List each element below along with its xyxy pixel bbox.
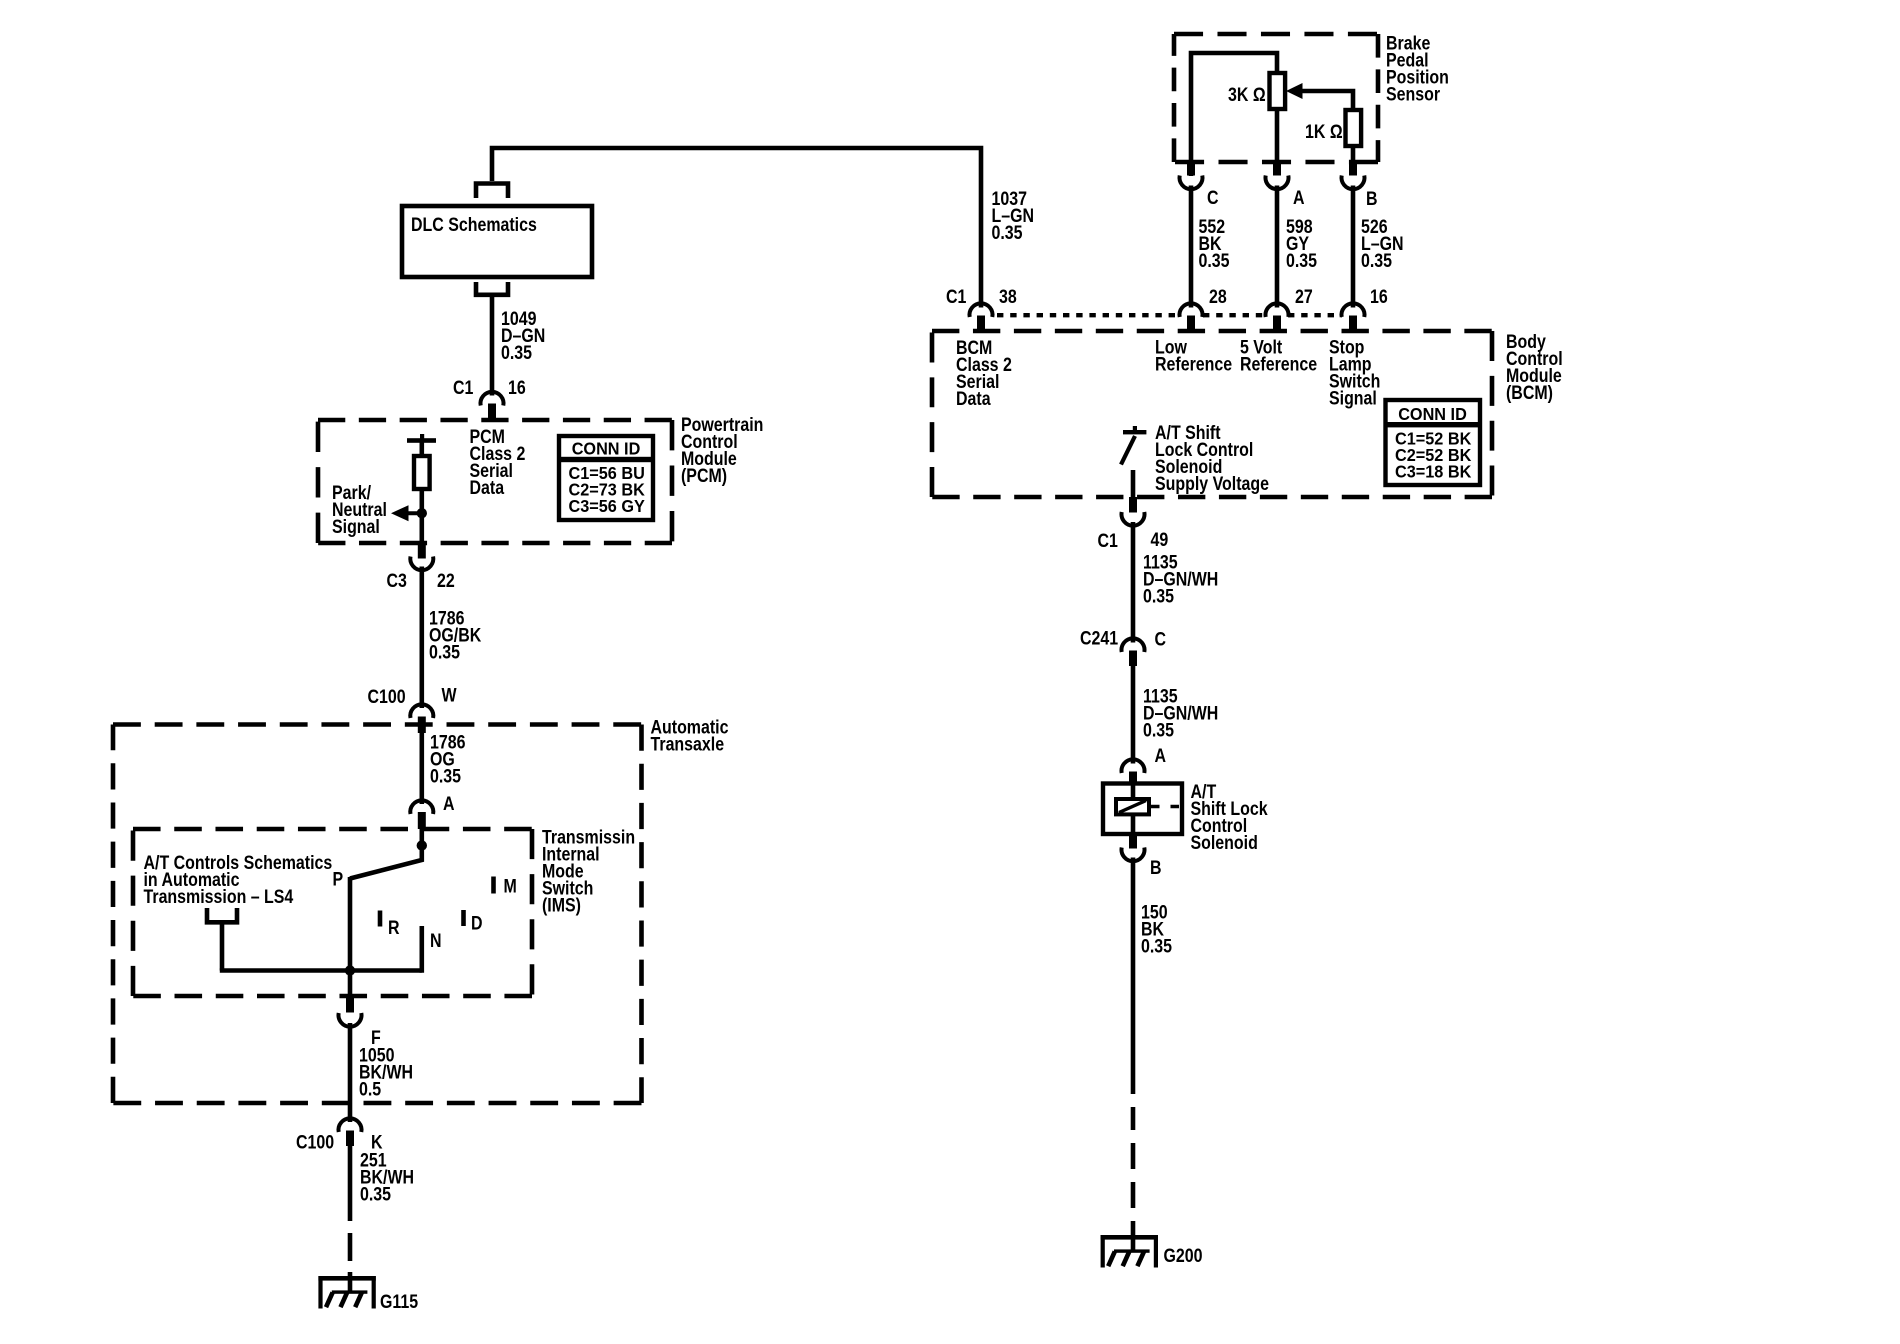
Transmissin IMS dashed box — [133, 829, 532, 996]
svg-text:P: P — [333, 868, 344, 890]
wire B to ground run — [1131, 858, 1136, 1095]
pin label W — [442, 684, 457, 706]
wire P contact down — [348, 877, 353, 973]
svg-text:0.35: 0.35 — [1199, 250, 1230, 272]
sensor pin label A — [1293, 187, 1305, 209]
svg-text:0.35: 0.35 — [992, 222, 1023, 244]
connector F below IMS — [339, 996, 362, 1027]
IMS wiper to P contact — [350, 846, 422, 879]
ground G200 — [1101, 1235, 1158, 1268]
dashed wire to G200 — [1131, 1107, 1136, 1250]
svg-text:Reference: Reference — [1240, 353, 1317, 375]
svg-text:M: M — [504, 875, 517, 897]
connector C1-49 below BCM — [1122, 497, 1145, 526]
connector label C1 (PCM) — [453, 377, 474, 399]
wire C241 to solenoid A — [1131, 666, 1136, 764]
wiper arrow — [1286, 83, 1353, 111]
svg-text:0.35: 0.35 — [1143, 719, 1174, 741]
sensor pin label C — [1207, 187, 1219, 209]
svg-text:A: A — [1155, 745, 1167, 767]
wire C100-K down — [348, 1146, 353, 1221]
dotted connector C1 row — [997, 313, 1342, 317]
connector B below solenoid — [1122, 834, 1145, 861]
sensor internal wire C-side — [1191, 53, 1277, 176]
pin label 28 — [1209, 286, 1227, 308]
svg-text:(PCM): (PCM) — [681, 465, 727, 487]
svg-text:22: 22 — [437, 570, 455, 592]
svg-text:N: N — [430, 930, 442, 952]
svg-text:0.35: 0.35 — [1141, 935, 1172, 957]
connector C3-22 below PCM — [410, 543, 433, 570]
svg-text:3K Ω: 3K Ω — [1228, 84, 1266, 106]
arrow Park/Neutral Signal — [391, 505, 422, 521]
switch A/T shift lock control in BCM — [1121, 426, 1146, 497]
pin label 16 — [508, 377, 526, 399]
svg-text:Solenoid: Solenoid — [1191, 832, 1258, 854]
svg-text:0.35: 0.35 — [360, 1183, 391, 1205]
svg-text:Signal: Signal — [332, 516, 380, 538]
connector A at IMS — [410, 800, 433, 829]
wire top data bus (DLC to BCM) — [492, 148, 981, 308]
svg-text:Data: Data — [470, 477, 505, 499]
label A/T Shift Lock Control Solenoid — [1191, 781, 1268, 854]
off-page bracket A/T Controls — [207, 908, 237, 922]
svg-text:W: W — [442, 684, 457, 706]
svg-text:(IMS): (IMS) — [542, 894, 581, 916]
connector pin 16 — [1342, 303, 1365, 331]
sensor pin label B — [1366, 188, 1378, 210]
label Brake Pedal Position Sensor — [1386, 32, 1449, 105]
svg-text:16: 16 — [1370, 286, 1388, 308]
resistor in PCM — [414, 456, 430, 489]
svg-text:DLC Schematics: DLC Schematics — [411, 214, 537, 236]
svg-text:0.35: 0.35 — [1143, 585, 1174, 607]
connector label C241 — [1080, 627, 1118, 649]
contact tick N — [419, 926, 424, 973]
svg-text:0.35: 0.35 — [429, 641, 460, 663]
wire label 1786 OG/BK 0.35 — [429, 607, 482, 663]
svg-text:Data: Data — [956, 388, 991, 410]
svg-text:Transmission – LS4: Transmission – LS4 — [144, 886, 294, 908]
svg-text:C: C — [1155, 628, 1167, 650]
svg-text:0.35: 0.35 — [501, 342, 532, 364]
wire resistor to node — [419, 487, 424, 542]
svg-text:C: C — [1207, 187, 1219, 209]
wire label 150 BK 0.35 — [1141, 901, 1172, 957]
junction dot F node — [345, 965, 355, 975]
wire C100-W to IMS pin A — [419, 731, 424, 804]
connector C1-16 at PCM — [481, 392, 504, 420]
svg-text:C100: C100 — [296, 1131, 334, 1153]
wire T-bar to resistor — [419, 441, 424, 458]
connector A at solenoid — [1122, 759, 1145, 784]
label G115 — [380, 1291, 418, 1313]
Brake Pedal Position Sensor dashed box — [1174, 34, 1378, 162]
PCM module dashed box — [318, 420, 672, 543]
wire 1K to pin B — [1351, 145, 1356, 162]
contact label N — [430, 930, 442, 952]
wire label 1135 D-GN/WH 0.35 lower — [1143, 685, 1218, 741]
contact label R — [388, 917, 400, 939]
svg-text:1K Ω: 1K Ω — [1305, 121, 1343, 143]
label Park/Neutral Signal — [332, 482, 387, 538]
solenoid element — [1116, 799, 1149, 814]
connector label C3 — [387, 570, 408, 592]
svg-text:C1: C1 — [1098, 530, 1119, 552]
svg-text:Sensor: Sensor — [1386, 83, 1440, 105]
label BCM Class 2 Serial Data — [956, 337, 1012, 410]
connector label C100 (K) — [296, 1131, 334, 1153]
wire A into IMS — [419, 828, 424, 848]
label Transmissin Internal Mode Switch (IMS) — [542, 826, 635, 916]
svg-text:0.35: 0.35 — [1286, 250, 1317, 272]
svg-text:G200: G200 — [1164, 1245, 1203, 1267]
pin label 49 — [1151, 529, 1169, 551]
off-page connector bracket below DLC — [476, 282, 508, 295]
BCM module dashed box — [932, 331, 1492, 497]
label PCM Class 2 Serial Data — [470, 426, 526, 499]
label Low Reference — [1155, 336, 1232, 375]
wire F node down — [348, 971, 353, 997]
svg-text:CONN ID: CONN ID — [572, 439, 641, 459]
label 3K ohm — [1228, 84, 1266, 106]
ground G115 — [318, 1276, 375, 1309]
wire label 1135 D-GN/WH 0.35 upper — [1143, 551, 1218, 607]
svg-text:38: 38 — [999, 286, 1017, 308]
svg-text:16: 16 — [508, 377, 526, 399]
label A/T Controls Schematics in Automatic Transmission - LS4 — [144, 852, 333, 908]
svg-text:0.5: 0.5 — [359, 1078, 381, 1100]
svg-text:C1: C1 — [453, 377, 474, 399]
svg-text:C3=18 BK: C3=18 BK — [1395, 462, 1472, 482]
label Automatic Transaxle — [651, 716, 729, 755]
Automatic Transaxle dashed box — [113, 725, 642, 1104]
CONN ID table (PCM) — [559, 436, 653, 520]
wire DLC to PCM C1-16 — [490, 297, 495, 396]
pin label K — [371, 1131, 383, 1153]
svg-text:27: 27 — [1295, 286, 1313, 308]
pin label C — [1155, 628, 1167, 650]
svg-text:Signal: Signal — [1329, 387, 1377, 409]
contact tick R — [378, 911, 383, 927]
resistor 1K — [1346, 110, 1362, 146]
svg-text:0.35: 0.35 — [430, 765, 461, 787]
wire C1-49 to C241 — [1131, 522, 1136, 643]
connector pin 28 — [1180, 303, 1203, 331]
wire 3K to pin A — [1275, 108, 1280, 162]
junction node (Park/Neutral tap) — [417, 508, 427, 518]
svg-text:B: B — [1366, 188, 1378, 210]
wire 526 L-GN — [1351, 186, 1356, 308]
wire label 526 L-GN 0.35 — [1361, 216, 1404, 272]
svg-text:Transaxle: Transaxle — [651, 733, 725, 755]
svg-text:49: 49 — [1151, 529, 1169, 551]
svg-text:C3: C3 — [387, 570, 408, 592]
svg-text:B: B — [1150, 857, 1162, 879]
wire solenoid to B — [1131, 814, 1136, 834]
label A/T Shift Lock Control Solenoid Supply Voltage — [1155, 421, 1269, 494]
wire label 1786 OG 0.35 — [430, 731, 466, 787]
wire F to C100-K — [348, 1023, 353, 1122]
inline connector C100-K — [339, 1118, 362, 1146]
sensor connector B — [1342, 162, 1365, 189]
connector label C1 (BCM) — [946, 286, 967, 308]
connector pin 38 — [970, 303, 993, 331]
wire label 251 BK/WH 0.35 — [360, 1149, 414, 1205]
pin label A (solenoid) — [1155, 745, 1167, 767]
connector pin 27 — [1266, 303, 1289, 331]
internal supply T-bar in PCM — [407, 434, 436, 443]
off-page connector bracket above DLC — [476, 184, 508, 199]
wire label 598 GY 0.35 — [1286, 216, 1317, 272]
pin label 16 — [1370, 286, 1388, 308]
pin label 38 — [999, 286, 1017, 308]
contact tick D — [461, 910, 466, 926]
contact label P — [333, 868, 344, 890]
svg-text:R: R — [388, 917, 400, 939]
sensor connector C — [1180, 162, 1203, 189]
svg-text:D: D — [471, 912, 483, 934]
CONN ID table (BCM) — [1386, 400, 1481, 485]
contact label D — [471, 912, 483, 934]
potentiometer 3K — [1270, 73, 1286, 109]
pin label B (solenoid) — [1150, 857, 1162, 879]
wire IMS bottom bus — [220, 968, 422, 973]
svg-text:C100: C100 — [368, 686, 406, 708]
pin label A (IMS) — [443, 793, 455, 815]
inline connector C100-W — [410, 704, 433, 733]
label G200 — [1164, 1245, 1203, 1267]
svg-text:C241: C241 — [1080, 627, 1118, 649]
wire PCM to C100-W — [419, 567, 424, 709]
svg-text:0.35: 0.35 — [1361, 250, 1392, 272]
label Stop Lamp Switch Signal — [1329, 336, 1380, 409]
label Body Control Module (BCM) — [1506, 331, 1563, 404]
wire label 1049 D-GN 0.35 — [501, 308, 545, 364]
svg-text:Supply Voltage: Supply Voltage — [1155, 472, 1269, 494]
wire label 552 BK 0.35 — [1199, 216, 1230, 272]
label 1K ohm — [1305, 121, 1343, 143]
wire 552 BK — [1189, 186, 1194, 308]
connector label C1 (49) — [1098, 530, 1119, 552]
label Powertrain Control Module (PCM) — [681, 414, 763, 487]
svg-text:C3=56 GY: C3=56 GY — [569, 497, 645, 517]
wire label 1050 BK/WH 0.5 — [359, 1044, 413, 1100]
wire label 1037 L-GN 0.35 — [992, 188, 1035, 244]
svg-text:C1: C1 — [946, 286, 967, 308]
sensor connector A — [1266, 162, 1289, 189]
connector label C100 (W) — [368, 686, 406, 708]
svg-text:G115: G115 — [380, 1291, 418, 1313]
dashed wire to G115 — [348, 1233, 353, 1292]
wire into solenoid — [1131, 783, 1136, 800]
pin label F — [371, 1027, 381, 1049]
svg-text:Reference: Reference — [1155, 353, 1232, 375]
svg-text:CONN ID: CONN ID — [1398, 404, 1467, 424]
svg-text:(BCM): (BCM) — [1506, 382, 1553, 404]
contact label M — [504, 875, 517, 897]
svg-text:A: A — [1293, 187, 1305, 209]
DLC Schematics box — [402, 206, 592, 277]
pin label 22 — [437, 570, 455, 592]
junction dot IMS wiper — [417, 840, 427, 850]
solenoid dashed link — [1151, 805, 1180, 808]
svg-text:28: 28 — [1209, 286, 1227, 308]
svg-text:A: A — [443, 793, 455, 815]
A/T Shift Lock Control Solenoid box — [1103, 784, 1182, 835]
label 5 Volt Reference — [1240, 336, 1317, 375]
inline connector C241-C — [1122, 638, 1145, 666]
wire 598 GY — [1275, 186, 1280, 308]
contact tick M — [491, 877, 496, 894]
wire bracket to bus — [220, 922, 225, 971]
pin label 27 — [1295, 286, 1313, 308]
